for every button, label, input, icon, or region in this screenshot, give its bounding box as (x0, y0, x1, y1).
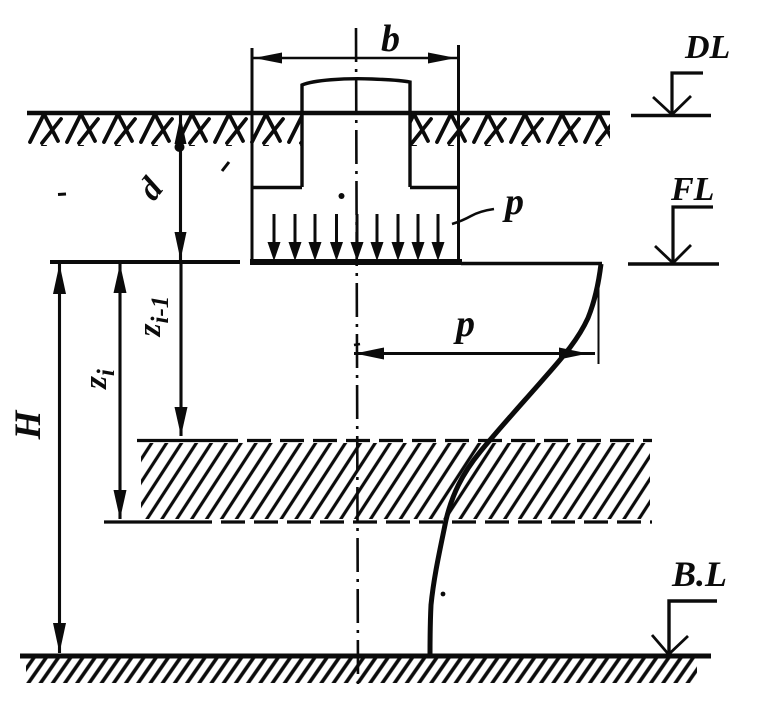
svg-text:b: b (381, 18, 400, 60)
svg-text:B.L: B.L (671, 554, 727, 594)
svg-text:p: p (453, 303, 475, 345)
svg-text:p: p (502, 181, 524, 223)
svg-text:FL: FL (670, 171, 714, 208)
svg-text:H: H (8, 409, 49, 440)
svg-text:DL: DL (684, 29, 730, 66)
